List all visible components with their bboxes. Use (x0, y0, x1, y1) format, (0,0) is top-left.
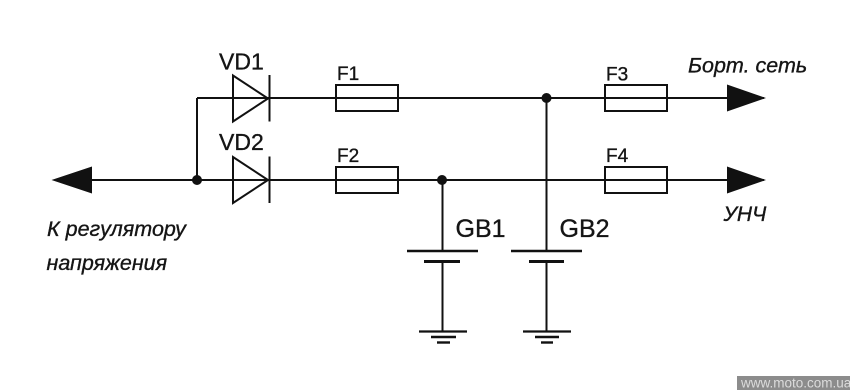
wire: GB2 stem upper (from top rail, crosses bottom rail) (546, 98, 548, 251)
wire: bottom rail y=180 (55, 179, 764, 181)
svg-text:Борт. сеть: Борт. сеть (688, 54, 807, 78)
wire: vertical link between rails at x=197 (196, 98, 198, 180)
svg-text:GB2: GB2 (560, 215, 610, 243)
svg-text:F4: F4 (606, 146, 629, 167)
wire: top rail y=98 (197, 97, 764, 99)
ground: GB1 (419, 332, 467, 343)
svg-text:К регулятору: К регулятору (47, 217, 187, 241)
arrow: right output top (Борт. сеть) (727, 85, 766, 112)
svg-text:F2: F2 (337, 146, 359, 167)
wire: GB1 stem upper (442, 180, 444, 251)
svg-text:F1: F1 (337, 64, 359, 85)
battery GB1 (407, 251, 478, 262)
arrow: right output bottom (УНЧ) (727, 167, 766, 194)
fuse F4 (605, 167, 667, 193)
node: junction dot at x=546 top rail (GB2 tap) (542, 93, 552, 103)
node: junction dot at x=197 bottom rail (192, 175, 202, 185)
node: junction dot at x=442 bottom rail (GB1 tap) (437, 175, 447, 185)
diode VD2 (233, 157, 270, 204)
fuse F3 (605, 85, 667, 111)
watermark www.moto.com.ua (737, 376, 850, 390)
svg-text:УНЧ: УНЧ (723, 203, 768, 226)
wire: GB2 stem lower (546, 262, 548, 332)
svg-text:VD2: VD2 (219, 129, 264, 155)
fuse F1 (336, 85, 398, 111)
svg-text:GB1: GB1 (456, 215, 506, 243)
svg-text:F3: F3 (606, 65, 628, 86)
diode VD1 (233, 75, 270, 122)
svg-text:www.moto.com.ua: www.moto.com.ua (740, 376, 850, 390)
battery GB2 (511, 251, 582, 262)
svg-text:напряжения: напряжения (47, 251, 168, 275)
fuse F2 (336, 167, 398, 193)
wire: GB1 stem lower (442, 262, 444, 332)
ground: GB2 (523, 332, 571, 343)
arrow: left output to voltage regulator (52, 167, 93, 194)
svg-text:VD1: VD1 (219, 49, 264, 75)
